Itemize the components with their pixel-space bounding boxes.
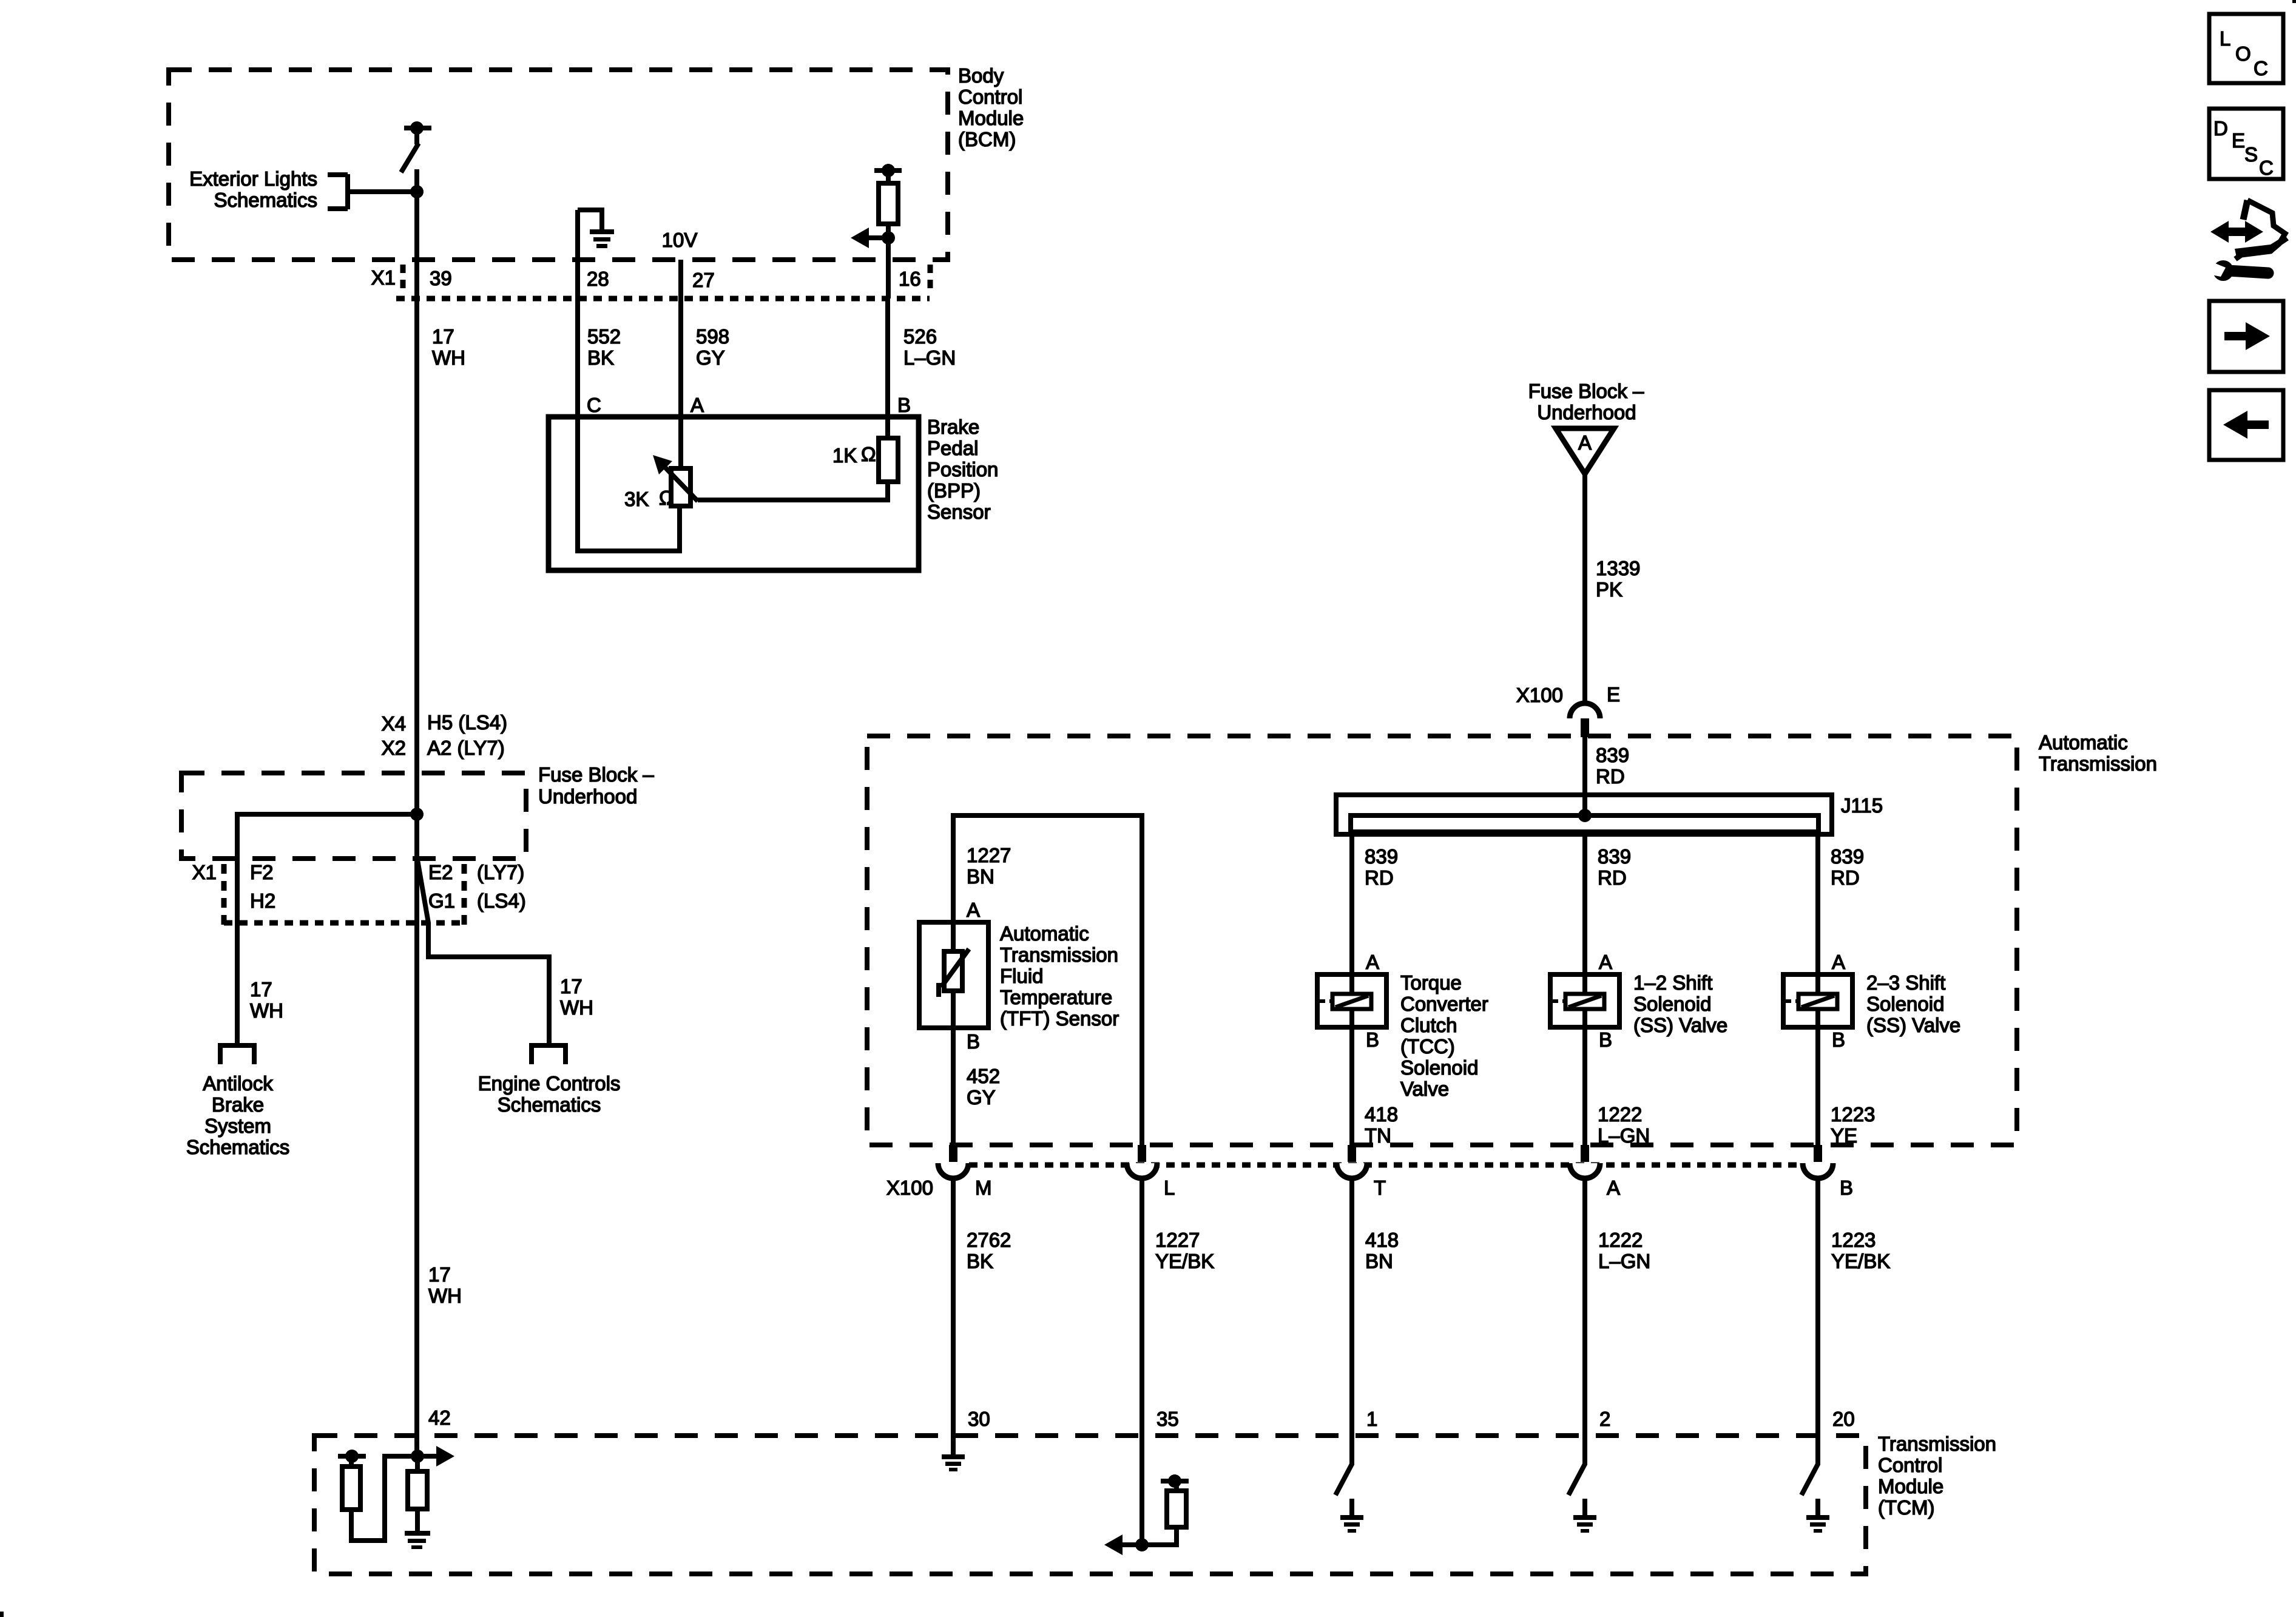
svg-text:(LS4): (LS4) <box>477 890 526 912</box>
svg-text:Exterior Lights: Exterior Lights <box>189 167 317 190</box>
wire 526 L-GN (pin 16) <box>885 299 890 441</box>
svg-text:X2: X2 <box>382 737 406 759</box>
svg-text:552: 552 <box>587 325 621 348</box>
svg-text:H5 (LS4): H5 (LS4) <box>427 711 507 734</box>
wire: pin 35 into TCM <box>1140 1436 1144 1545</box>
switch driver (TCM pin 2) <box>1568 1436 1585 1495</box>
wire 839 RD branch at x=2612 <box>1582 832 1587 977</box>
wire 839 RD branch at x=2228 <box>1349 832 1354 977</box>
svg-text:42: 42 <box>428 1406 451 1429</box>
svg-text:1K: 1K <box>832 444 857 467</box>
svg-text:Antilock: Antilock <box>203 1072 273 1095</box>
svg-text:Clutch: Clutch <box>1400 1014 1457 1036</box>
svg-text:27: 27 <box>692 269 715 291</box>
ground (TCM pin42) <box>405 1531 430 1549</box>
connector X100 dashed line <box>969 1163 1803 1168</box>
label: Fuse Block - Underhood <box>538 763 654 808</box>
thermistor symbol <box>939 922 969 1028</box>
svg-text:A: A <box>967 899 980 921</box>
connector X1 separator ticks <box>400 265 406 295</box>
svg-text:1222: 1222 <box>1598 1229 1643 1251</box>
svg-text:F2: F2 <box>250 861 274 883</box>
svg-text:L–GN: L–GN <box>903 346 956 369</box>
svg-text:Transmission: Transmission <box>1000 944 1118 966</box>
wire 552 BK (pin 28) <box>587 325 621 369</box>
connector X100 pin T <box>1348 1145 1356 1162</box>
svg-text:17: 17 <box>432 325 454 348</box>
svg-text:1223: 1223 <box>1831 1103 1875 1126</box>
svg-text:Transmission: Transmission <box>2039 752 2157 775</box>
icon: adjust/tools (double arrow, outline, wrench) <box>2209 200 2289 281</box>
svg-text:A: A <box>1832 951 1845 973</box>
svg-text:A: A <box>1578 431 1592 454</box>
svg-text:Body: Body <box>958 64 1004 87</box>
wire 1223 YE/BK to TCM pin 20 <box>1815 1177 1820 1436</box>
wire through fuse block <box>414 773 419 862</box>
wire 839 RD branch at x=2996 <box>1815 832 1820 977</box>
svg-text:Temperature: Temperature <box>1000 986 1112 1008</box>
ground (TCM pin 20) <box>1806 1499 1829 1533</box>
wire: E2/G1 branch to Engine Controls <box>417 860 549 1045</box>
svg-text:839: 839 <box>1365 845 1398 868</box>
connector X1 (fuse block) dashed line <box>224 920 464 926</box>
svg-text:1339: 1339 <box>1596 557 1640 579</box>
resistor (TCM pin42 to ground) <box>408 1456 427 1531</box>
svg-text:1227: 1227 <box>967 844 1011 866</box>
label: Fuse Block - Underhood (power feed) <box>1528 380 1644 424</box>
component box: Brake Pedal Position (BPP) Sensor <box>549 417 919 570</box>
svg-text:Automatic: Automatic <box>1000 922 1089 945</box>
svg-text:Solenoid: Solenoid <box>1633 993 1711 1015</box>
svg-text:A: A <box>1607 1176 1620 1199</box>
resistor inside BCM on pin 16 circuit <box>874 164 902 224</box>
label: TCC solenoid valve <box>1400 971 1488 1100</box>
svg-text:X100: X100 <box>1516 684 1563 706</box>
svg-text:D: D <box>2213 117 2228 140</box>
svg-text:GY: GY <box>696 346 725 369</box>
node: TCM pin42 junction <box>411 1450 424 1463</box>
svg-text:WH: WH <box>560 996 593 1019</box>
svg-text:A2 (LY7): A2 (LY7) <box>427 737 505 759</box>
node: junction at arrow <box>882 231 895 245</box>
svg-text:(BPP): (BPP) <box>927 479 981 502</box>
svg-text:Schematics: Schematics <box>186 1136 290 1158</box>
wire 1227 BN loop (TFT sensor feed) <box>953 815 1142 1145</box>
svg-text:System: System <box>204 1115 271 1137</box>
potentiometer 3K ohm <box>653 455 698 506</box>
wire 1222 L–GN to TCM pin 2 <box>1582 1177 1587 1436</box>
label: Brake Pedal Position (BPP) Sensor <box>927 416 998 523</box>
connector X100 pin A <box>1581 1145 1589 1162</box>
svg-text:L: L <box>2220 27 2230 50</box>
wire 1227 YE/BK to TCM pin 35 <box>1140 1177 1144 1436</box>
wire 418 TN <box>1349 1027 1354 1145</box>
svg-text:YE: YE <box>1831 1124 1857 1147</box>
svg-text:30: 30 <box>968 1408 990 1430</box>
value label: 1K ohm <box>832 443 876 467</box>
arrow: signal to left inside BCM <box>851 228 888 248</box>
wire 1223 YE <box>1815 1027 1820 1145</box>
svg-text:839: 839 <box>1596 744 1629 766</box>
svg-text:Valve: Valve <box>1400 1078 1449 1100</box>
wire 2762 BK to TCM pin 30 <box>951 1177 956 1436</box>
wire: switch to junction <box>414 169 419 194</box>
module box: Fuse Block - Underhood (left) <box>181 773 526 859</box>
wire 17 WH (pin 39) <box>414 260 419 340</box>
label: Body Control Module (BCM) <box>958 64 1024 150</box>
label: Engine Controls Schematics <box>478 1072 621 1116</box>
svg-text:452: 452 <box>967 1065 1000 1087</box>
svg-text:(LY7): (LY7) <box>477 861 524 883</box>
svg-text:2: 2 <box>1599 1408 1610 1430</box>
svg-text:Underhood: Underhood <box>538 785 637 808</box>
wire: BCM pin 16 down to X1 <box>886 238 891 299</box>
svg-text:Engine Controls: Engine Controls <box>478 1072 621 1095</box>
svg-text:Schematics: Schematics <box>498 1093 601 1116</box>
svg-text:L–GN: L–GN <box>1598 1250 1650 1272</box>
svg-text:PK: PK <box>1596 578 1622 601</box>
svg-text:YE/BK: YE/BK <box>1155 1250 1214 1272</box>
svg-text:Control: Control <box>958 86 1022 108</box>
svg-text:10V: 10V <box>662 229 698 251</box>
page mark bottom-left <box>0 1612 4 1617</box>
connector label X4 / H5 (LS4) <box>382 711 507 735</box>
svg-text:X100: X100 <box>886 1176 933 1199</box>
svg-text:L: L <box>1164 1176 1175 1199</box>
svg-text:Fuse Block –: Fuse Block – <box>538 763 654 786</box>
svg-text:RD: RD <box>1365 866 1394 889</box>
svg-text:Fuse Block –: Fuse Block – <box>1528 380 1644 402</box>
svg-text:B: B <box>967 1030 980 1053</box>
svg-text:C: C <box>587 394 601 416</box>
svg-text:Brake: Brake <box>927 416 979 438</box>
svg-text:598: 598 <box>696 325 729 348</box>
svg-text:Sensor: Sensor <box>927 501 991 523</box>
svg-text:526: 526 <box>903 325 937 348</box>
splice pack J115 <box>1336 795 1832 834</box>
svg-text:E: E <box>2232 129 2245 152</box>
svg-text:20: 20 <box>1832 1408 1855 1430</box>
svg-text:Position: Position <box>927 458 998 481</box>
svg-text:A: A <box>1366 951 1379 973</box>
svg-text:Fluid: Fluid <box>1000 965 1044 987</box>
module box: Automatic Transmission <box>867 736 2017 1145</box>
ground (TCM pin 30) <box>942 1454 965 1459</box>
svg-text:A: A <box>1599 951 1612 973</box>
svg-text:E2: E2 <box>428 861 453 883</box>
wire: main 17 WH continues to TCM <box>414 862 419 1436</box>
svg-text:Control: Control <box>1878 1454 1942 1476</box>
svg-text:G1: G1 <box>428 890 455 912</box>
icon button: DESC <box>2209 109 2283 179</box>
arrow: signal to left inside TCM <box>1104 1534 1142 1555</box>
icon button: back arrow <box>2209 390 2283 460</box>
wire label 17 WH (F2 branch) <box>250 978 283 1022</box>
wire label 17 WH (E2 branch) <box>560 975 593 1019</box>
wire: 17 WH main run to fuse block <box>414 299 419 773</box>
svg-text:16: 16 <box>899 268 921 290</box>
svg-text:Transmission: Transmission <box>1878 1433 1996 1455</box>
solenoid: TCC solenoid valve <box>1317 974 1386 1027</box>
connector X1 (BCM) dashed line <box>396 296 930 302</box>
svg-text:(BCM): (BCM) <box>958 128 1016 150</box>
resistor 1K ohm <box>879 438 898 482</box>
label: Automatic Transmission <box>2039 731 2157 775</box>
wire: branch to F2 <box>237 814 417 1045</box>
svg-text:WH: WH <box>428 1284 462 1307</box>
label: Transmission Control Module (TCM) <box>1878 1433 1996 1519</box>
arrow: signal into TCM logic <box>417 1446 454 1467</box>
svg-text:(SS) Valve: (SS) Valve <box>1633 1014 1727 1036</box>
svg-text:(TCC): (TCC) <box>1400 1035 1455 1058</box>
svg-text:WH: WH <box>432 346 465 369</box>
label: 2-3 shift solenoid valve <box>1866 971 1960 1036</box>
svg-text:BN: BN <box>967 865 994 888</box>
switch driver (TCM pin 20) <box>1801 1436 1818 1495</box>
svg-text:RD: RD <box>1596 765 1625 788</box>
wire 1339 PK <box>1582 474 1587 704</box>
svg-text:839: 839 <box>1598 845 1631 868</box>
svg-text:Automatic: Automatic <box>2039 731 2128 754</box>
svg-text:B: B <box>897 394 911 416</box>
off-page bracket: Antilock Brake <box>218 1045 257 1064</box>
svg-text:2–3 Shift: 2–3 Shift <box>1866 971 1945 994</box>
svg-text:Pedal: Pedal <box>927 437 978 459</box>
svg-text:S: S <box>2244 143 2258 166</box>
svg-text:1222: 1222 <box>1598 1103 1642 1126</box>
wire: pin C inside sensor <box>578 417 680 551</box>
svg-text:Ω: Ω <box>659 487 674 509</box>
label + bracket: Exterior Lights Schematics <box>189 167 348 211</box>
wire: pin 30 to ground <box>951 1436 956 1454</box>
page mark top-right <box>2292 0 2296 3</box>
wire: pot wiper arm to 1K resistor <box>698 482 888 500</box>
wire 839 RD (from X100 E) <box>1582 737 1587 815</box>
svg-text:2762: 2762 <box>967 1229 1011 1251</box>
svg-text:1–2 Shift: 1–2 Shift <box>1633 971 1712 994</box>
svg-text:B: B <box>1840 1176 1853 1199</box>
svg-text:1227: 1227 <box>1155 1229 1200 1251</box>
svg-text:Ω: Ω <box>861 443 876 465</box>
svg-text:17: 17 <box>560 975 582 998</box>
svg-text:BK: BK <box>967 1250 993 1272</box>
ground (TCM pin 1) <box>1340 1499 1363 1533</box>
svg-text:WH: WH <box>250 999 283 1022</box>
svg-text:B: B <box>1832 1028 1845 1051</box>
wire: resistor to junction <box>886 224 891 238</box>
ground (TCM pin 2) <box>1573 1499 1596 1533</box>
svg-text:X1: X1 <box>371 266 396 289</box>
svg-text:418: 418 <box>1365 1229 1399 1251</box>
svg-text:Module: Module <box>958 107 1024 129</box>
module box: Body Control Module (BCM) <box>169 70 948 260</box>
svg-text:Solenoid: Solenoid <box>1866 993 1944 1015</box>
svg-text:Solenoid: Solenoid <box>1400 1056 1478 1079</box>
svg-text:28: 28 <box>587 268 609 290</box>
module box: Transmission Control Module (TCM) <box>314 1436 1866 1574</box>
svg-text:1: 1 <box>1366 1408 1377 1430</box>
wire: Exterior Lights tap to pin39 wire <box>348 189 417 194</box>
svg-text:T: T <box>1374 1176 1386 1199</box>
connector X100 pin L <box>1138 1145 1146 1162</box>
svg-text:H2: H2 <box>250 890 275 912</box>
resistor (TCM pin42 pull-up) <box>338 1450 366 1510</box>
connector X100 pin B <box>1814 1145 1822 1162</box>
svg-text:Converter: Converter <box>1400 993 1488 1015</box>
svg-text:J115: J115 <box>1841 794 1883 817</box>
icon button: forward arrow <box>2209 301 2283 372</box>
svg-text:M: M <box>975 1176 992 1199</box>
svg-text:Brake: Brake <box>212 1093 264 1116</box>
wire 452 GY <box>951 1028 956 1145</box>
wire label 17 WH (main, above TCM) <box>428 1263 462 1307</box>
svg-text:39: 39 <box>430 267 452 289</box>
value label: 3K ohm <box>624 487 674 510</box>
wire: junction rail to pull-up resistor <box>351 1456 417 1541</box>
off-page bracket: Engine Controls <box>529 1045 568 1064</box>
icon button: LOC <box>2209 14 2283 83</box>
svg-text:Torque: Torque <box>1400 971 1462 994</box>
ground symbol inside BCM (pin 28 circuit) <box>578 208 614 420</box>
label: Automatic Transmission Fluid Temperature (TFT) Sensor <box>1000 922 1119 1030</box>
svg-text:839: 839 <box>1831 845 1864 868</box>
svg-text:RD: RD <box>1598 866 1627 889</box>
wire: BCM pin 39 down to X1 <box>414 192 419 299</box>
wire 598 GY (pin 27) <box>678 260 683 471</box>
svg-text:Module: Module <box>1878 1475 1943 1497</box>
switch driver (TCM pin 1) <box>1335 1436 1352 1495</box>
svg-text:B: B <box>1366 1028 1379 1051</box>
svg-text:C: C <box>2254 57 2268 79</box>
node: TCM pin35 junction <box>1135 1538 1149 1551</box>
svg-text:BN: BN <box>1365 1250 1393 1272</box>
label: 1-2 shift solenoid valve <box>1633 971 1727 1036</box>
svg-text:RD: RD <box>1831 866 1860 889</box>
svg-text:BK: BK <box>587 346 614 369</box>
svg-text:X4: X4 <box>382 712 406 735</box>
svg-text:418: 418 <box>1365 1103 1398 1126</box>
svg-text:A: A <box>690 394 704 416</box>
power feed triangle A <box>1556 428 1614 474</box>
component box: TFT sensor <box>919 922 988 1028</box>
svg-text:(SS) Valve: (SS) Valve <box>1866 1014 1960 1036</box>
svg-text:YE/BK: YE/BK <box>1831 1250 1890 1272</box>
svg-text:E: E <box>1607 683 1620 706</box>
svg-text:Underhood: Underhood <box>1537 401 1636 424</box>
solenoid: 2-3 shift solenoid valve <box>1783 974 1852 1027</box>
switch inside BCM on pin 39 circuit <box>401 121 431 172</box>
connector label X2 / A2 (LY7) <box>382 737 505 759</box>
svg-text:L–GN: L–GN <box>1598 1124 1650 1147</box>
svg-text:17: 17 <box>250 978 272 1001</box>
label: Antilock Brake System Schematics <box>186 1072 290 1158</box>
node: J115 junction <box>1578 809 1592 822</box>
svg-text:1223: 1223 <box>1831 1229 1876 1251</box>
wire 1222 L–GN <box>1582 1027 1587 1145</box>
wire: pin 42 into TCM <box>414 1436 419 1456</box>
svg-text:GY: GY <box>967 1086 996 1109</box>
node: junction in fuse block <box>410 808 424 821</box>
svg-text:C: C <box>2259 157 2274 179</box>
svg-text:17: 17 <box>428 1263 451 1286</box>
svg-text:TN: TN <box>1365 1124 1391 1147</box>
connector X100 pin E (in-line) <box>1570 703 1600 718</box>
node: junction with Exterior Lights tap <box>410 185 424 198</box>
resistor (TCM pin35 pull-up) <box>1142 1474 1189 1545</box>
svg-text:(TCM): (TCM) <box>1878 1496 1934 1519</box>
connector X1 separator ticks <box>221 864 227 925</box>
solenoid: 1-2 shift solenoid valve <box>1550 974 1619 1027</box>
svg-text:O: O <box>2235 42 2251 65</box>
svg-text:Schematics: Schematics <box>214 189 317 211</box>
svg-text:(TFT) Sensor: (TFT) Sensor <box>1000 1007 1119 1030</box>
svg-text:35: 35 <box>1156 1408 1179 1430</box>
svg-text:X1: X1 <box>192 861 217 883</box>
connector X100 pin M <box>949 1145 957 1162</box>
svg-text:3K: 3K <box>624 488 649 510</box>
wire 418 BN to TCM pin 1 <box>1349 1177 1354 1436</box>
svg-text:B: B <box>1599 1028 1612 1051</box>
